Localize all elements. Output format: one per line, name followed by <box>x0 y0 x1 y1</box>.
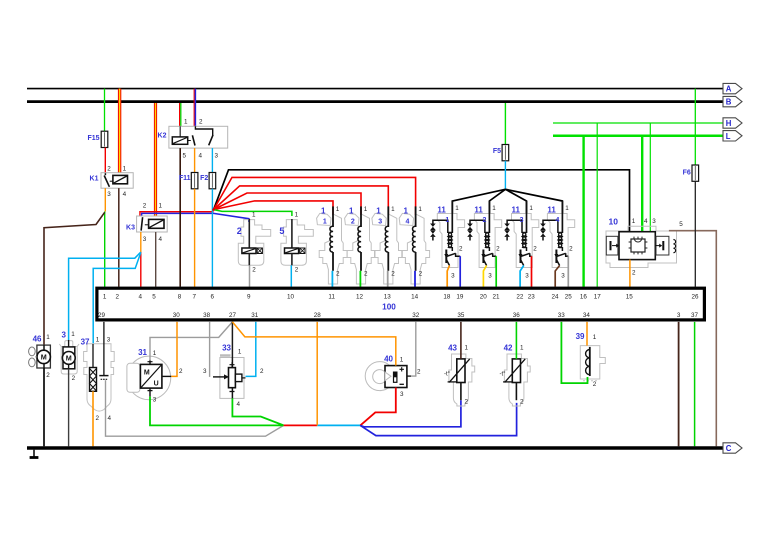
svg-text:7: 7 <box>192 294 196 301</box>
svg-text:1: 1 <box>565 205 569 212</box>
svg-text:20: 20 <box>480 294 488 301</box>
svg-text:30: 30 <box>173 312 181 319</box>
wire ECU pin 37 to bus C (green) <box>694 322 696 446</box>
svg-text:1: 1 <box>520 345 524 352</box>
svg-text:M: M <box>41 353 47 362</box>
svg-text:K3: K3 <box>126 225 135 232</box>
svg-text:19: 19 <box>456 294 464 301</box>
wire throttle actuator 31 pin 3 to splice (green) <box>150 397 284 426</box>
svg-text:1: 1 <box>238 349 242 356</box>
bus L (CAN low) <box>553 135 723 138</box>
svg-text:1: 1 <box>593 334 597 341</box>
svg-text:1: 1 <box>295 212 299 219</box>
svg-text:4: 4 <box>237 401 241 408</box>
fuel pump 3 <box>59 331 79 383</box>
svg-text:1: 1 <box>96 337 100 344</box>
wire splice to temp sensor 42 pin 2 (blue) <box>360 403 516 436</box>
svg-text:1: 1 <box>632 218 636 225</box>
relay K1 <box>90 165 134 198</box>
wire bus B to relay K3 pin 1 (red/yellow) <box>154 103 157 216</box>
svg-text:3: 3 <box>378 219 382 226</box>
svg-text:2: 2 <box>143 203 147 210</box>
wire fuel pump 3 pin 2 to bus C <box>68 369 70 447</box>
wire splice to relay K3 pin 2 (red) <box>140 212 214 216</box>
svg-text:1: 1 <box>376 207 381 216</box>
svg-text:F6: F6 <box>683 170 691 177</box>
svg-text:1: 1 <box>492 205 496 212</box>
throttle actuator 31 <box>127 348 183 404</box>
wire sensor 40 pin 2 to ECU pin 32 (grey) <box>411 322 416 376</box>
wire splice to injector 1/1 pin 1 (red) <box>214 201 333 215</box>
svg-text:2: 2 <box>496 245 500 252</box>
svg-text:F11: F11 <box>179 175 191 182</box>
wire splice to module 10 pin 1 (black) <box>214 170 630 232</box>
svg-text:4: 4 <box>123 191 127 198</box>
svg-text:4: 4 <box>108 415 112 422</box>
wire sensor 40 pin 3 to splice (red) <box>360 388 396 426</box>
svg-text:3: 3 <box>107 191 111 198</box>
svg-text:2: 2 <box>364 271 368 278</box>
ignition coil feed fork wires <box>452 189 562 213</box>
wire bus A to fuse F6 (green) <box>694 89 696 165</box>
svg-text:40: 40 <box>384 354 393 363</box>
ECU 100 connector <box>97 288 705 320</box>
wire K3 pin 3 to splice (orange) <box>140 232 142 252</box>
svg-text:6: 6 <box>211 294 215 301</box>
svg-text:4: 4 <box>199 152 203 159</box>
svg-text:25: 25 <box>565 294 573 301</box>
svg-text:2: 2 <box>632 270 636 277</box>
wire ECU pin 3 to bus C <box>678 322 680 446</box>
svg-text:K1: K1 <box>90 176 99 183</box>
svg-text:1: 1 <box>153 350 157 357</box>
svg-text:2: 2 <box>520 398 524 405</box>
svg-text:34: 34 <box>583 312 591 319</box>
injector 1 cylinder 2 <box>345 206 375 284</box>
svg-text:33: 33 <box>558 312 566 319</box>
svg-text:1: 1 <box>455 205 459 212</box>
svg-text:F2: F2 <box>200 175 208 182</box>
wire bus B to fuse F5 (green) <box>504 103 506 145</box>
svg-text:2: 2 <box>417 369 421 376</box>
svg-text:L: L <box>726 132 731 141</box>
svg-text:1: 1 <box>184 118 188 125</box>
svg-text:2: 2 <box>569 245 573 252</box>
svg-text:1: 1 <box>445 217 449 224</box>
svg-text:3: 3 <box>143 236 147 243</box>
svg-text:3: 3 <box>203 368 207 375</box>
svg-text:2: 2 <box>237 226 242 236</box>
svg-text:2: 2 <box>593 381 597 388</box>
fuse F5 <box>502 145 509 161</box>
svg-text:22: 22 <box>516 294 524 301</box>
wire bus H to ECU pin 17 (green) <box>596 123 598 287</box>
svg-text:9: 9 <box>247 294 251 301</box>
svg-text:17: 17 <box>594 294 602 301</box>
wire lambda sensor 37 pin 2 to bus C (orange) <box>92 391 94 446</box>
ignition coil 11 cylinder 2 <box>467 201 502 279</box>
svg-text:1: 1 <box>400 356 404 363</box>
svg-text:37: 37 <box>81 338 90 347</box>
wire K3 pin 4 to ECU pin 5 <box>155 232 157 287</box>
svg-text:5: 5 <box>183 152 187 159</box>
svg-text:-t°: -t° <box>500 371 507 377</box>
svg-text:1: 1 <box>159 203 163 210</box>
svg-text:28: 28 <box>314 312 322 319</box>
svg-text:2: 2 <box>116 294 120 301</box>
wire bus H to module 10 pin 3 (green) <box>649 123 651 232</box>
svg-text:F5: F5 <box>493 148 501 155</box>
svg-text:1: 1 <box>418 206 422 213</box>
wire splice to temp sensor 43 pin 2 (blue) <box>360 400 461 427</box>
svg-text:11: 11 <box>328 294 335 301</box>
flag H <box>723 118 742 128</box>
svg-text:26: 26 <box>691 294 699 301</box>
svg-text:2: 2 <box>107 165 111 172</box>
svg-text:37: 37 <box>691 312 699 319</box>
wire throttle actuator 31 pin 2 to ECU pin 30 (orange) <box>171 322 177 377</box>
wire splice to injector 1/4 pin 1 (red) <box>214 177 416 215</box>
svg-text:14: 14 <box>411 294 419 301</box>
svg-text:10: 10 <box>609 217 619 227</box>
wire splice to valve 5 pin 1 (green) <box>214 210 292 216</box>
svg-text:29: 29 <box>98 312 106 319</box>
electric fan motor 46 <box>29 334 51 379</box>
svg-text:2: 2 <box>199 118 203 125</box>
svg-text:11: 11 <box>437 206 446 215</box>
wire MAP sensor 33 pin 3 to ECU pin 38 (grey) <box>209 322 211 377</box>
svg-text:11: 11 <box>512 206 521 215</box>
svg-text:31: 31 <box>251 312 259 319</box>
svg-text:31: 31 <box>138 348 147 357</box>
svg-text:H: H <box>726 119 732 128</box>
svg-text:23: 23 <box>528 294 536 301</box>
intake air temperature sensor 42 <box>500 344 531 406</box>
svg-text:38: 38 <box>203 312 211 319</box>
splice node <box>212 208 215 211</box>
ignition coil 11 cylinder 3 <box>504 201 539 279</box>
wire K2 pin 4 to fuse F11 (orange) <box>194 148 196 172</box>
wire F15 to relay K1 pin 2 <box>104 148 106 173</box>
svg-text:1: 1 <box>252 212 256 219</box>
sensor ground splice wires <box>284 424 361 426</box>
wire ECU pin 27 to sensor 40 pin 1 (orange) <box>232 322 395 366</box>
wire throttle actuator 31 pin 1 to ECU pin 27 (grey) <box>150 322 232 361</box>
module 10 ignition output stage <box>606 217 683 277</box>
svg-text:3: 3 <box>153 397 157 404</box>
wire splice to ECU pin 1 (green) <box>104 212 106 287</box>
svg-text:5: 5 <box>679 221 683 228</box>
svg-text:43: 43 <box>448 344 457 353</box>
svg-text:32: 32 <box>412 312 420 319</box>
wire ECU pin 28 to splice (orange) <box>316 322 318 426</box>
svg-text:5: 5 <box>152 294 156 301</box>
wire K2 pin 3 to fuse F2 (cyan) <box>211 148 213 172</box>
svg-text:3: 3 <box>62 331 67 340</box>
wire bus A to relay K2 pin 2 (red/blue) <box>194 89 195 127</box>
svg-text:-t°: -t° <box>444 371 451 377</box>
svg-text:12: 12 <box>356 294 364 301</box>
svg-text:100: 100 <box>382 303 396 312</box>
coolant temperature sensor 43 <box>444 344 475 406</box>
svg-text:2: 2 <box>533 245 537 252</box>
svg-text:1: 1 <box>465 345 469 352</box>
wire K1 pin 3 to splice (orange) <box>104 188 106 211</box>
bus A (battery + line) <box>27 88 723 90</box>
flag L <box>723 131 742 141</box>
wire splice to valve 2 pin 1 and K3 pin 2 (blue) <box>142 213 249 222</box>
svg-text:2: 2 <box>46 372 50 379</box>
svg-text:16: 16 <box>580 294 588 301</box>
solenoid valve 2 <box>237 212 271 274</box>
svg-text:33: 33 <box>222 344 231 353</box>
svg-text:1: 1 <box>349 207 354 216</box>
wire splice to injector 1/3 pin 1 (red) <box>214 186 389 215</box>
svg-text:M: M <box>144 369 150 376</box>
wire splice to ECU pin 4 (red) <box>140 252 142 287</box>
svg-text:4: 4 <box>159 236 163 243</box>
wire splice to lambda sensor 37 pin 1 (cyan) <box>93 253 141 345</box>
ignition coil 11 cylinder 1 <box>430 201 465 279</box>
svg-text:B: B <box>726 98 732 107</box>
bus B (ignition + line) <box>27 100 723 103</box>
svg-text:3: 3 <box>451 272 455 279</box>
svg-text:21: 21 <box>492 294 500 301</box>
svg-text:3: 3 <box>488 272 492 279</box>
svg-text:11: 11 <box>474 206 483 215</box>
svg-text:8: 8 <box>178 294 182 301</box>
flag B <box>723 96 742 106</box>
svg-text:2: 2 <box>252 266 256 273</box>
bus C (ground) <box>27 446 723 449</box>
svg-text:1: 1 <box>391 206 395 213</box>
svg-text:3: 3 <box>400 391 404 398</box>
wire bus A to fuse F15 <box>104 89 106 132</box>
svg-text:3: 3 <box>215 152 219 159</box>
svg-text:1: 1 <box>123 165 127 172</box>
svg-text:46: 46 <box>33 335 42 344</box>
ignition coil 11 cylinder 4 <box>540 201 575 279</box>
wire splice to fuel pump 3 pin 1 (cyan) <box>69 252 141 340</box>
wire K1 pin 4 to ECU pin 2 <box>118 188 120 287</box>
svg-text:A: A <box>726 85 732 94</box>
svg-text:2: 2 <box>179 368 183 375</box>
svg-text:4: 4 <box>644 218 648 225</box>
svg-text:2: 2 <box>482 217 486 224</box>
svg-text:10: 10 <box>287 294 295 301</box>
svg-text:K2: K2 <box>158 133 167 140</box>
svg-text:5: 5 <box>279 226 284 236</box>
wire bus A to relay K1 pin 1 (red/yellow) <box>118 89 121 173</box>
wire bus L to module 10 pin 4 (green) <box>641 136 643 232</box>
svg-text:18: 18 <box>443 294 451 301</box>
svg-text:2: 2 <box>72 375 76 382</box>
svg-text:1: 1 <box>336 206 340 213</box>
svg-text:F15: F15 <box>87 135 99 142</box>
injector 1 cylinder 1 <box>317 206 347 284</box>
svg-text:M: M <box>66 354 72 363</box>
MAP sensor 33 <box>203 344 264 408</box>
svg-text:13: 13 <box>384 294 392 301</box>
wire F11 to ECU pin 7 (orange) <box>194 189 196 287</box>
svg-text:1: 1 <box>321 207 326 216</box>
wire F2 to ECU pin 6 through splice (cyan) <box>211 189 213 287</box>
svg-text:24: 24 <box>551 294 559 301</box>
fuse F2 <box>209 173 216 189</box>
wire ECU pin 34 to sensor 39 pin 1 (orange) <box>586 322 588 346</box>
svg-text:2: 2 <box>96 415 100 422</box>
svg-text:2: 2 <box>459 245 463 252</box>
wire splice to fan motor 46 pin 1 (brown) <box>44 212 105 345</box>
wire MAP sensor 33 pin 1 to ECU pin 27 (black) <box>231 322 233 360</box>
svg-text:2: 2 <box>295 266 299 273</box>
wire splice to injector 1/2 pin 1 (red) <box>214 193 361 215</box>
svg-text:11: 11 <box>547 206 556 215</box>
lambda sensor 37 <box>81 322 115 422</box>
throttle position sensor 40 <box>365 354 421 398</box>
relay K2 <box>158 118 228 159</box>
svg-text:2: 2 <box>465 398 469 405</box>
wire F6 to ECU pin 26 <box>694 181 696 286</box>
fuse F15 <box>101 131 108 147</box>
solenoid valve 5 <box>279 212 313 274</box>
wire lambda sensor 37 pin 4 to splice (grey) <box>106 416 284 436</box>
svg-text:3: 3 <box>107 337 111 344</box>
wire MAP sensor 33 pin 4 to splice (green) <box>232 398 283 425</box>
svg-text:2: 2 <box>419 271 423 278</box>
wire module 10 pin 2 to ECU pin 15 (orange) <box>629 260 631 287</box>
fuse F11 <box>191 173 198 189</box>
svg-text:2: 2 <box>260 368 264 375</box>
svg-text:36: 36 <box>513 312 521 319</box>
crankshaft position sensor 39 <box>576 332 606 388</box>
wire module 10 pin 5 to bus C (brown) <box>669 231 716 447</box>
svg-text:1: 1 <box>46 334 50 341</box>
svg-text:4: 4 <box>139 294 143 301</box>
injector 1 cylinder 4 <box>399 206 429 284</box>
svg-text:2: 2 <box>336 271 340 278</box>
svg-text:1: 1 <box>364 206 368 213</box>
svg-text:2: 2 <box>351 219 355 226</box>
svg-text:U: U <box>154 381 159 388</box>
wire bus L to ECU pin 16 (green) <box>582 136 584 287</box>
wire bus B to relay K2 pin 1 (red/green) <box>180 103 181 126</box>
bus H (CAN high) <box>553 122 723 124</box>
svg-text:3: 3 <box>561 272 565 279</box>
fuse F6 <box>692 165 699 181</box>
svg-text:1: 1 <box>323 219 327 226</box>
svg-text:1: 1 <box>103 294 107 301</box>
svg-text:4: 4 <box>405 219 409 226</box>
svg-text:1: 1 <box>404 207 409 216</box>
flag A <box>723 83 742 93</box>
svg-text:4: 4 <box>555 217 559 224</box>
wire K2 pin 5 to ECU pin 8 <box>179 148 181 287</box>
wire fan motor 46 pin 2 to bus C <box>43 368 45 446</box>
relay K3 <box>126 203 167 243</box>
svg-text:2: 2 <box>391 271 395 278</box>
svg-text:3: 3 <box>525 272 529 279</box>
wire ECU pin 33 to sensor 39 pin 2 (green) <box>561 322 587 383</box>
injector 1 cylinder 3 <box>372 206 402 284</box>
svg-text:27: 27 <box>229 312 237 319</box>
flag C <box>723 443 742 453</box>
svg-text:1: 1 <box>71 331 75 338</box>
wire MAP sensor 33 pin 2 to ECU pin 31 (cyan) <box>246 322 256 377</box>
svg-text:C: C <box>726 444 732 453</box>
svg-text:1: 1 <box>529 205 533 212</box>
svg-text:3: 3 <box>652 218 656 225</box>
svg-text:3: 3 <box>520 217 524 224</box>
ground symbol <box>30 450 39 458</box>
svg-text:15: 15 <box>626 294 634 301</box>
wire F5 to ignition coil feed fork (cyan) <box>504 161 506 190</box>
svg-text:35: 35 <box>457 312 465 319</box>
svg-text:42: 42 <box>504 344 513 353</box>
svg-text:39: 39 <box>576 332 585 341</box>
svg-text:3: 3 <box>677 312 681 319</box>
